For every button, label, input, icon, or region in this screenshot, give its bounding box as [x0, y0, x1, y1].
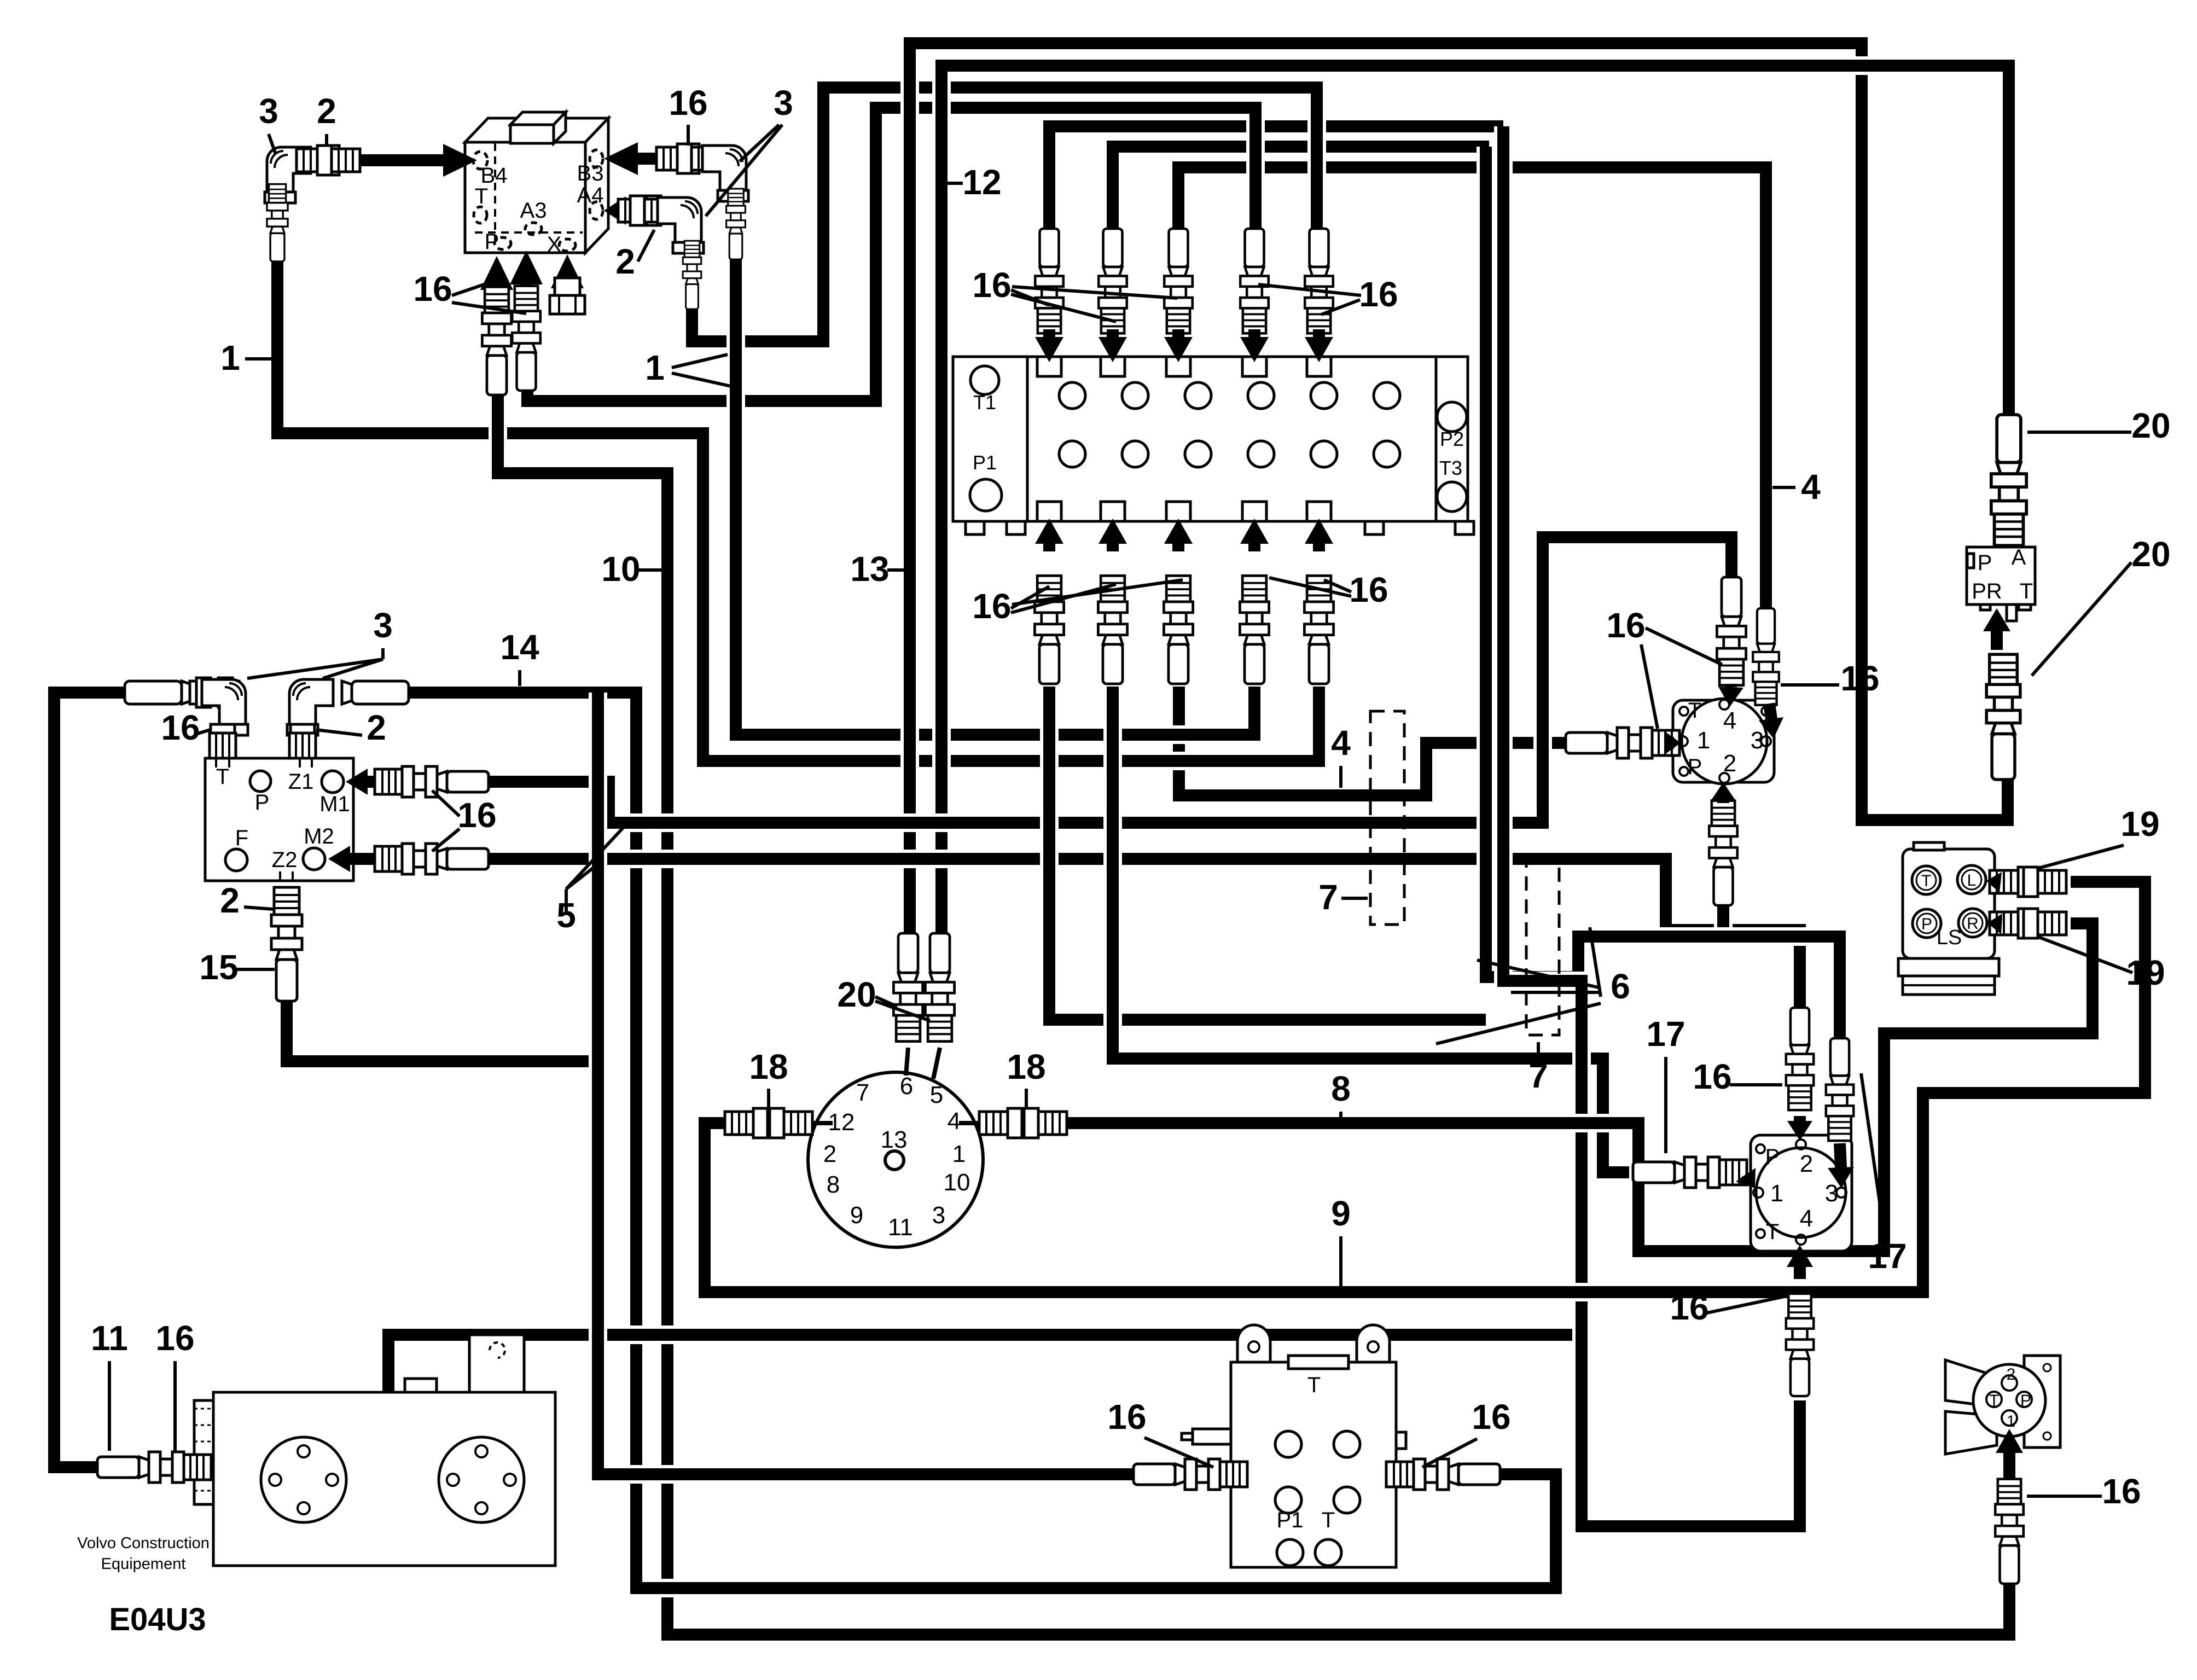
- leader 3b: [740, 125, 779, 161]
- svg-text:T3: T3: [1439, 457, 1462, 479]
- svg-text:4: 4: [948, 1108, 961, 1135]
- svg-text:1: 1: [1697, 727, 1710, 754]
- svg-text:20: 20: [2131, 534, 2170, 574]
- svg-text:6: 6: [1611, 967, 1630, 1006]
- fitting M1: [375, 766, 489, 797]
- leader 1: [245, 357, 271, 361]
- arrow into U1 port4: [1718, 684, 1743, 707]
- svg-text:2: 2: [367, 708, 386, 747]
- arrow up into P: [480, 256, 513, 290]
- svg-text:13: 13: [881, 1126, 908, 1153]
- wire hose 6 manifold col2 bottom to valve U2 port1: [1113, 687, 1633, 1172]
- wire hose 6 v2748 to valve U2 port4: [1503, 126, 1800, 1526]
- l16u1c: [1781, 683, 1839, 687]
- svg-text:16: 16: [457, 795, 496, 835]
- svg-text:P2: P2: [1440, 428, 1464, 450]
- l11: [108, 1361, 111, 1451]
- fitting 18 left: [725, 1108, 812, 1138]
- fitting pair on T-line: [190, 678, 239, 707]
- svg-text:T: T: [2020, 579, 2033, 603]
- l16a: [1011, 290, 1049, 305]
- leader 16a: [452, 280, 497, 295]
- svg-text:P1: P1: [973, 451, 997, 474]
- fitting 2 at A4: [618, 196, 673, 225]
- svg-text:16: 16: [2102, 1472, 2141, 1511]
- fitting chain below manifold col x=1918: [1034, 575, 1063, 684]
- svg-text:P1: P1: [1277, 1508, 1304, 1532]
- svg-text:5: 5: [930, 1082, 943, 1108]
- arrow into M1: [346, 769, 384, 795]
- fitting 2 at B4: [297, 146, 360, 175]
- svg-text:1: 1: [220, 338, 240, 377]
- l9: [1339, 1236, 1342, 1287]
- svg-text:16: 16: [1840, 659, 1879, 698]
- svg-text:F: F: [235, 826, 248, 850]
- fitting stack at Z2: [271, 887, 302, 1001]
- svg-text:3: 3: [259, 91, 278, 131]
- svg-text:13: 13: [850, 549, 889, 589]
- l3p3: [247, 659, 383, 678]
- svg-text:P: P: [1765, 1145, 1780, 1169]
- fitting chain above U1 port3: [1753, 608, 1779, 705]
- fitting column below P: [482, 287, 511, 395]
- svg-text:Z2: Z2: [272, 848, 298, 872]
- hose-end Z1-to-14: [342, 681, 409, 704]
- l16c: [1012, 287, 1177, 298]
- elbow 3 at T: [202, 679, 248, 735]
- fitting 17 chain above U2 port3: [1826, 1038, 1853, 1141]
- svg-text:2: 2: [220, 881, 240, 920]
- l2z2: [244, 907, 274, 909]
- svg-text:T: T: [1307, 1373, 1321, 1397]
- l6a: [1477, 960, 1601, 988]
- svg-text:16: 16: [1670, 1288, 1708, 1327]
- fitting 11/16 into tank: [97, 1452, 211, 1483]
- fitting chain above manifold col x=1918: [1035, 229, 1063, 333]
- svg-text:2: 2: [1723, 750, 1736, 777]
- svg-text:R: R: [1967, 915, 1979, 933]
- l10: [638, 568, 663, 572]
- leader 16: [687, 125, 690, 146]
- svg-text:16: 16: [1472, 1397, 1510, 1437]
- l19a: [2036, 845, 2124, 869]
- svg-text:M1: M1: [319, 792, 350, 816]
- svg-text:X: X: [547, 232, 562, 257]
- wire hose 4 col3-bottom to valve U1 port1: [1179, 687, 1567, 795]
- arrow into manifold top col x=2293: [1240, 329, 1269, 362]
- valve block A (B4/B3/A4/A3/P/T/X): [465, 112, 608, 253]
- svg-text:3: 3: [932, 1202, 945, 1229]
- fitting chain below U1 port2: [1709, 801, 1737, 905]
- l8: [1339, 1112, 1342, 1120]
- wire hose tank top to port4 line: [388, 1335, 1582, 1394]
- l18l: [767, 1089, 770, 1109]
- fitting chain above U1 port4: [1717, 577, 1746, 685]
- l5: [565, 889, 568, 915]
- svg-text:4: 4: [1331, 723, 1351, 763]
- l7l: [1537, 1042, 1540, 1062]
- wire hose 1 B4-port to manifold col5 bottom: [277, 254, 1319, 761]
- leader 16b: [452, 303, 526, 313]
- leader 2b: [638, 230, 654, 261]
- svg-text:P: P: [485, 230, 499, 254]
- svg-text:4: 4: [1723, 707, 1736, 734]
- fitting chain below manifold col x=2034: [1098, 575, 1127, 684]
- svg-text:T1: T1: [973, 391, 996, 414]
- wire hose 12 distributor-5 to P A PR T block: [941, 66, 2009, 935]
- l4h: [1339, 766, 1342, 788]
- svg-text:10: 10: [944, 1169, 970, 1196]
- l20d: [875, 997, 897, 1007]
- arrow into M2: [328, 846, 384, 872]
- svg-text:7: 7: [856, 1079, 869, 1106]
- svg-text:T: T: [1989, 1392, 1999, 1410]
- cap fitting at X: [550, 278, 585, 314]
- arrow into manifold top col x=2411: [1305, 329, 1333, 362]
- l2z: [316, 730, 362, 735]
- fitting 17 into U2 port1: [1633, 1157, 1747, 1188]
- svg-text:T: T: [1766, 1220, 1779, 1244]
- arrow into U1 port1: [1664, 731, 1681, 755]
- arrow into B3: [604, 142, 661, 175]
- l16p1r: [1422, 1439, 1477, 1467]
- svg-text:2: 2: [2007, 1365, 2016, 1383]
- fitting 16 chain above U2 port2: [1786, 1008, 1814, 1110]
- svg-text:20: 20: [2131, 406, 2170, 445]
- distributor line 6: [906, 1048, 908, 1076]
- svg-text:M2: M2: [304, 824, 334, 848]
- arrow up into A3: [510, 251, 543, 286]
- l16i: [1324, 580, 1351, 592]
- wire hose 15 Z2-port down and east: [287, 996, 598, 1061]
- svg-text:16: 16: [1359, 275, 1398, 314]
- svg-text:17: 17: [1868, 1236, 1907, 1276]
- l16g: [1011, 584, 1116, 613]
- arrow up into X: [551, 254, 584, 288]
- fitting stack below B3 elbow: [726, 189, 746, 259]
- svg-text:2: 2: [1800, 1150, 1813, 1177]
- fitting 18 right: [979, 1108, 1067, 1138]
- wire hose Z2 to P1-block left port: [598, 693, 1135, 1474]
- svg-text:4: 4: [1800, 1205, 1813, 1232]
- fitting 16 into T: [210, 724, 236, 758]
- elbow 3 at Z1: [287, 679, 333, 735]
- l20d2: [875, 1001, 930, 1021]
- l13: [887, 568, 906, 572]
- l7u: [1341, 897, 1368, 900]
- l16u1: [1646, 628, 1722, 665]
- svg-text:9: 9: [1331, 1194, 1351, 1233]
- svg-text:16: 16: [155, 1318, 194, 1358]
- fitting M2: [375, 844, 489, 874]
- arrow into manifold bottom col x=2411: [1305, 519, 1333, 551]
- svg-text:16: 16: [972, 265, 1011, 305]
- leader 1a: [672, 354, 728, 368]
- svg-text:A: A: [2012, 545, 2026, 569]
- wire hose 13 distributor-6 to PR-block: [910, 43, 2008, 935]
- fitting chain above manifold col x=2293: [1240, 229, 1269, 333]
- arrow into U1 port3: [1759, 704, 1783, 739]
- l16T: [196, 730, 210, 734]
- l17a: [1664, 1057, 1667, 1153]
- fitting 20 chain below PR block: [1986, 654, 2020, 780]
- arrow into manifold bottom col x=2293: [1240, 519, 1269, 551]
- svg-text:11: 11: [91, 1318, 128, 1358]
- l16g2: [2027, 1495, 2102, 1498]
- svg-text:P: P: [255, 790, 270, 815]
- fitting into U1 port1: [1566, 728, 1679, 758]
- l17b: [1861, 1073, 1887, 1255]
- wire hose 4 col3-top to valve U1 port3: [1178, 167, 1766, 608]
- arrow into manifold bottom col x=2154: [1164, 519, 1193, 551]
- svg-text:16: 16: [669, 83, 707, 123]
- svg-text:20: 20: [837, 975, 876, 1014]
- l6c: [1436, 1003, 1601, 1044]
- tank and pump assembly: [213, 1392, 555, 1566]
- fitting 16 into P1 left: [1134, 1459, 1247, 1490]
- svg-text:P: P: [1921, 915, 1932, 933]
- fitting 19 L: [1990, 867, 2066, 897]
- l6b: [1511, 991, 1601, 994]
- svg-text:16: 16: [1107, 1397, 1146, 1437]
- svg-text:T: T: [1921, 872, 1931, 890]
- leader 1b: [672, 373, 736, 387]
- svg-text:3: 3: [1825, 1180, 1838, 1207]
- svg-text:3: 3: [774, 83, 793, 123]
- wire hose 1 A4-port to manifold col5 top: [692, 88, 1317, 341]
- valve U2 plate: [1751, 1135, 1852, 1251]
- fitting 16 chain below U2 port4: [1786, 1294, 1814, 1396]
- l16M: [432, 790, 460, 816]
- fitting column below A3: [512, 286, 540, 391]
- l4v: [1772, 486, 1795, 489]
- wire hose 10 P-port to grab coupling: [498, 383, 2009, 1635]
- svg-text:Volvo Construction: Volvo Construction: [77, 1534, 210, 1552]
- hose-end on 11-line: [125, 681, 191, 704]
- svg-text:PR: PR: [1972, 579, 2002, 603]
- wire hose 6 v2716 to valve U2 port3: [1486, 147, 1840, 1039]
- wire hose 1 B3-port to manifold col4 bottom: [736, 254, 1254, 735]
- svg-text:6: 6: [900, 1073, 913, 1100]
- wire hose manifold col1 bottom loop: [1049, 687, 1486, 1020]
- arrow into R: [1987, 914, 2002, 934]
- fitting chain below manifold col x=2411: [1304, 575, 1333, 684]
- l16u2a: [1730, 1083, 1782, 1086]
- fitting 20 chain distributor-6: [893, 933, 922, 1042]
- svg-text:P: P: [2020, 1392, 2031, 1410]
- svg-text:1: 1: [645, 348, 665, 387]
- svg-text:19: 19: [2120, 804, 2159, 844]
- svg-text:Z1: Z1: [288, 770, 314, 794]
- arrow into U2 port3: [1828, 1143, 1854, 1188]
- svg-text:T: T: [1688, 699, 1701, 723]
- l3p2: [323, 659, 383, 678]
- l16b: [1011, 294, 1116, 322]
- l16e: [1258, 284, 1361, 295]
- arrow into B4: [350, 144, 477, 177]
- l15: [234, 968, 275, 971]
- svg-text:P: P: [1688, 755, 1702, 779]
- grab / rotator assembly: [1945, 1360, 1997, 1407]
- elbow 3 at A4 line: [658, 197, 704, 253]
- svg-text:1: 1: [2007, 1412, 2016, 1431]
- leader 3b2: [706, 125, 782, 216]
- svg-text:8: 8: [827, 1171, 840, 1198]
- wire hose 5 M1 east run to valve U1 port4: [490, 537, 1731, 823]
- svg-text:8: 8: [1331, 1069, 1351, 1108]
- wire hose 9 distributor-12 to LS L port: [705, 882, 2145, 1292]
- svg-text:2: 2: [823, 1141, 836, 1167]
- distributor line 12: [808, 1121, 833, 1125]
- l16t: [173, 1361, 177, 1451]
- block P/A/PR/T: [1967, 547, 2035, 604]
- valve U1 plate: [1673, 700, 1774, 782]
- svg-text:14: 14: [500, 627, 539, 667]
- svg-text:17: 17: [1646, 1014, 1685, 1054]
- fitting chain above manifold col x=2034: [1098, 229, 1127, 333]
- l16f: [1011, 586, 1049, 608]
- svg-text:7: 7: [1318, 877, 1338, 917]
- svg-text:18: 18: [1007, 1047, 1045, 1086]
- svg-text:3: 3: [1751, 727, 1764, 754]
- svg-text:T: T: [216, 765, 229, 789]
- arrow into U2 port4: [1787, 1245, 1813, 1279]
- fitting stack below A4 elbow: [683, 241, 701, 309]
- valve block P1/T: [1231, 1362, 1396, 1567]
- arrow into manifold top col x=1918: [1035, 329, 1063, 362]
- distributor line 5: [933, 1048, 940, 1079]
- fitting chain above manifold col x=2411: [1305, 229, 1333, 333]
- fitting chain below manifold col x=2293: [1240, 575, 1269, 684]
- svg-text:LS: LS: [1937, 926, 1962, 949]
- manifold block T1/P1/P2/T3: [953, 357, 1468, 521]
- l20b: [2032, 562, 2131, 676]
- arrow into A4: [604, 196, 628, 225]
- svg-text:16: 16: [1349, 570, 1388, 609]
- l16h: [1012, 580, 1183, 604]
- svg-text:16: 16: [1606, 606, 1645, 645]
- arrow into U2 port1: [1736, 1168, 1756, 1188]
- svg-text:18: 18: [749, 1047, 788, 1086]
- svg-text:2: 2: [317, 91, 336, 131]
- svg-text:15: 15: [199, 947, 238, 987]
- elbow 3 at B4 line: [265, 147, 311, 203]
- fitting chain below manifold col x=2154: [1164, 575, 1193, 684]
- fitting 20 chain above PRT block: [1991, 415, 2026, 545]
- arrow into PR block bottom: [1983, 608, 2010, 650]
- l12: [943, 182, 963, 185]
- distributor line 4: [959, 1121, 982, 1125]
- steering unit LS: [1903, 849, 1995, 958]
- fitting 16 at B3: [656, 144, 720, 173]
- elbow 3 at B3 line: [702, 146, 748, 201]
- wire hose 5 M2 east run to valve ports 2: [490, 859, 1800, 1009]
- rotary distributor (clock face): [808, 1072, 983, 1247]
- l16d: [1321, 300, 1360, 315]
- wire hose A3-port to manifold col4 top: [527, 108, 1256, 401]
- l6d: [1590, 927, 1601, 997]
- svg-text:T: T: [475, 184, 488, 208]
- svg-text:16: 16: [161, 708, 200, 747]
- dashed component 7 lower: [1526, 854, 1559, 1035]
- l18r: [1025, 1089, 1028, 1109]
- l16p1l: [1144, 1438, 1213, 1467]
- l16j: [1269, 578, 1351, 596]
- arrow into manifold top col x=2154: [1164, 329, 1193, 362]
- wire hose riser valve U1 port2: [1714, 905, 1733, 930]
- svg-text:10: 10: [601, 549, 640, 589]
- svg-text:11: 11: [888, 1214, 913, 1241]
- svg-text:L: L: [1967, 871, 1977, 890]
- wire hose 11 to tank left port: [54, 693, 127, 1467]
- leader 3: [269, 134, 276, 154]
- dashed component 7 upper: [1370, 711, 1404, 925]
- svg-text:2: 2: [615, 242, 635, 281]
- fitting 16 into P1 right: [1386, 1459, 1500, 1490]
- arrow into L: [1986, 872, 2002, 893]
- fitting stack below B4 elbow: [267, 184, 288, 261]
- svg-text:3: 3: [373, 606, 393, 645]
- arrow into grab port1: [1996, 1429, 2023, 1478]
- wire hose col2-top down east: [1113, 147, 1489, 235]
- svg-text:Equipement: Equipement: [101, 1555, 186, 1573]
- arrow into manifold bottom col x=1918: [1035, 519, 1063, 551]
- svg-text:12: 12: [962, 162, 1001, 202]
- svg-text:B3: B3: [577, 161, 604, 185]
- fitting 16 chain below grab: [1995, 1479, 2024, 1584]
- svg-text:A3: A3: [520, 199, 547, 223]
- valve block B (T/P/Z1/M1/F/M2/Z2): [205, 758, 353, 881]
- arrow into manifold top col x=2034: [1098, 329, 1127, 362]
- svg-text:A4: A4: [577, 183, 604, 207]
- l5b: [566, 865, 596, 889]
- wire hose 14 Z1-elbow to P1-block right port: [408, 693, 1556, 1588]
- svg-text:P: P: [1978, 551, 1992, 575]
- leader 2: [325, 134, 328, 147]
- l20a: [2027, 431, 2131, 434]
- svg-text:9: 9: [850, 1202, 863, 1229]
- l16u1b: [1641, 644, 1658, 729]
- l5c: [566, 827, 624, 889]
- svg-text:1: 1: [1770, 1180, 1783, 1207]
- fitting 20 chain distributor-5: [925, 933, 954, 1042]
- wire hose 8 distributor-4 to LS R port: [1061, 923, 2093, 1251]
- fitting 19 R: [1990, 909, 2066, 938]
- svg-text:4: 4: [1801, 467, 1821, 507]
- svg-text:16: 16: [972, 586, 1011, 626]
- wire hose col1-top to v2748 corner: [1049, 126, 1503, 235]
- svg-text:16: 16: [413, 269, 452, 309]
- l19b: [2037, 937, 2132, 973]
- arrow into U1 port2: [1711, 782, 1736, 803]
- svg-text:T: T: [1322, 1508, 1335, 1532]
- fitting 2 into Z1: [289, 724, 316, 758]
- l3p: [381, 648, 385, 659]
- svg-text:16: 16: [1693, 1057, 1731, 1096]
- arrow into U2 port2: [1787, 1116, 1812, 1141]
- svg-text:E04U3: E04U3: [109, 1602, 206, 1637]
- l14: [518, 670, 521, 686]
- l16M2: [432, 829, 460, 851]
- svg-text:1: 1: [952, 1141, 966, 1167]
- arrow into manifold bottom col x=2034: [1098, 519, 1127, 551]
- l16u2b: [1707, 1297, 1785, 1313]
- fitting chain above manifold col x=2154: [1164, 229, 1193, 333]
